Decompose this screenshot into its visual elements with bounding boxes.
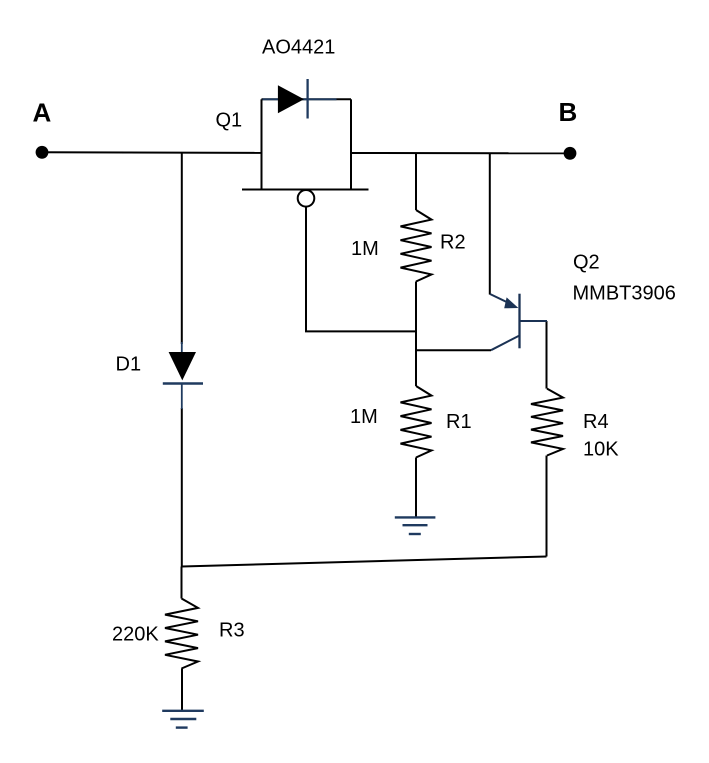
svg-text:R1: R1 xyxy=(446,411,472,433)
svg-text:A: A xyxy=(33,97,52,127)
svg-text:220K: 220K xyxy=(112,624,159,646)
svg-text:B: B xyxy=(559,97,578,127)
svg-text:10K: 10K xyxy=(583,439,619,461)
svg-text:R4: R4 xyxy=(583,411,609,433)
svg-text:1M: 1M xyxy=(351,238,379,260)
svg-text:Q1: Q1 xyxy=(216,110,243,132)
svg-text:AO4421: AO4421 xyxy=(262,37,335,59)
svg-text:R3: R3 xyxy=(219,620,245,642)
svg-text:R2: R2 xyxy=(440,231,466,253)
svg-text:D1: D1 xyxy=(116,354,142,376)
svg-text:1M: 1M xyxy=(350,406,378,428)
svg-text:MMBT3906: MMBT3906 xyxy=(573,283,676,305)
svg-text:Q2: Q2 xyxy=(573,251,600,273)
